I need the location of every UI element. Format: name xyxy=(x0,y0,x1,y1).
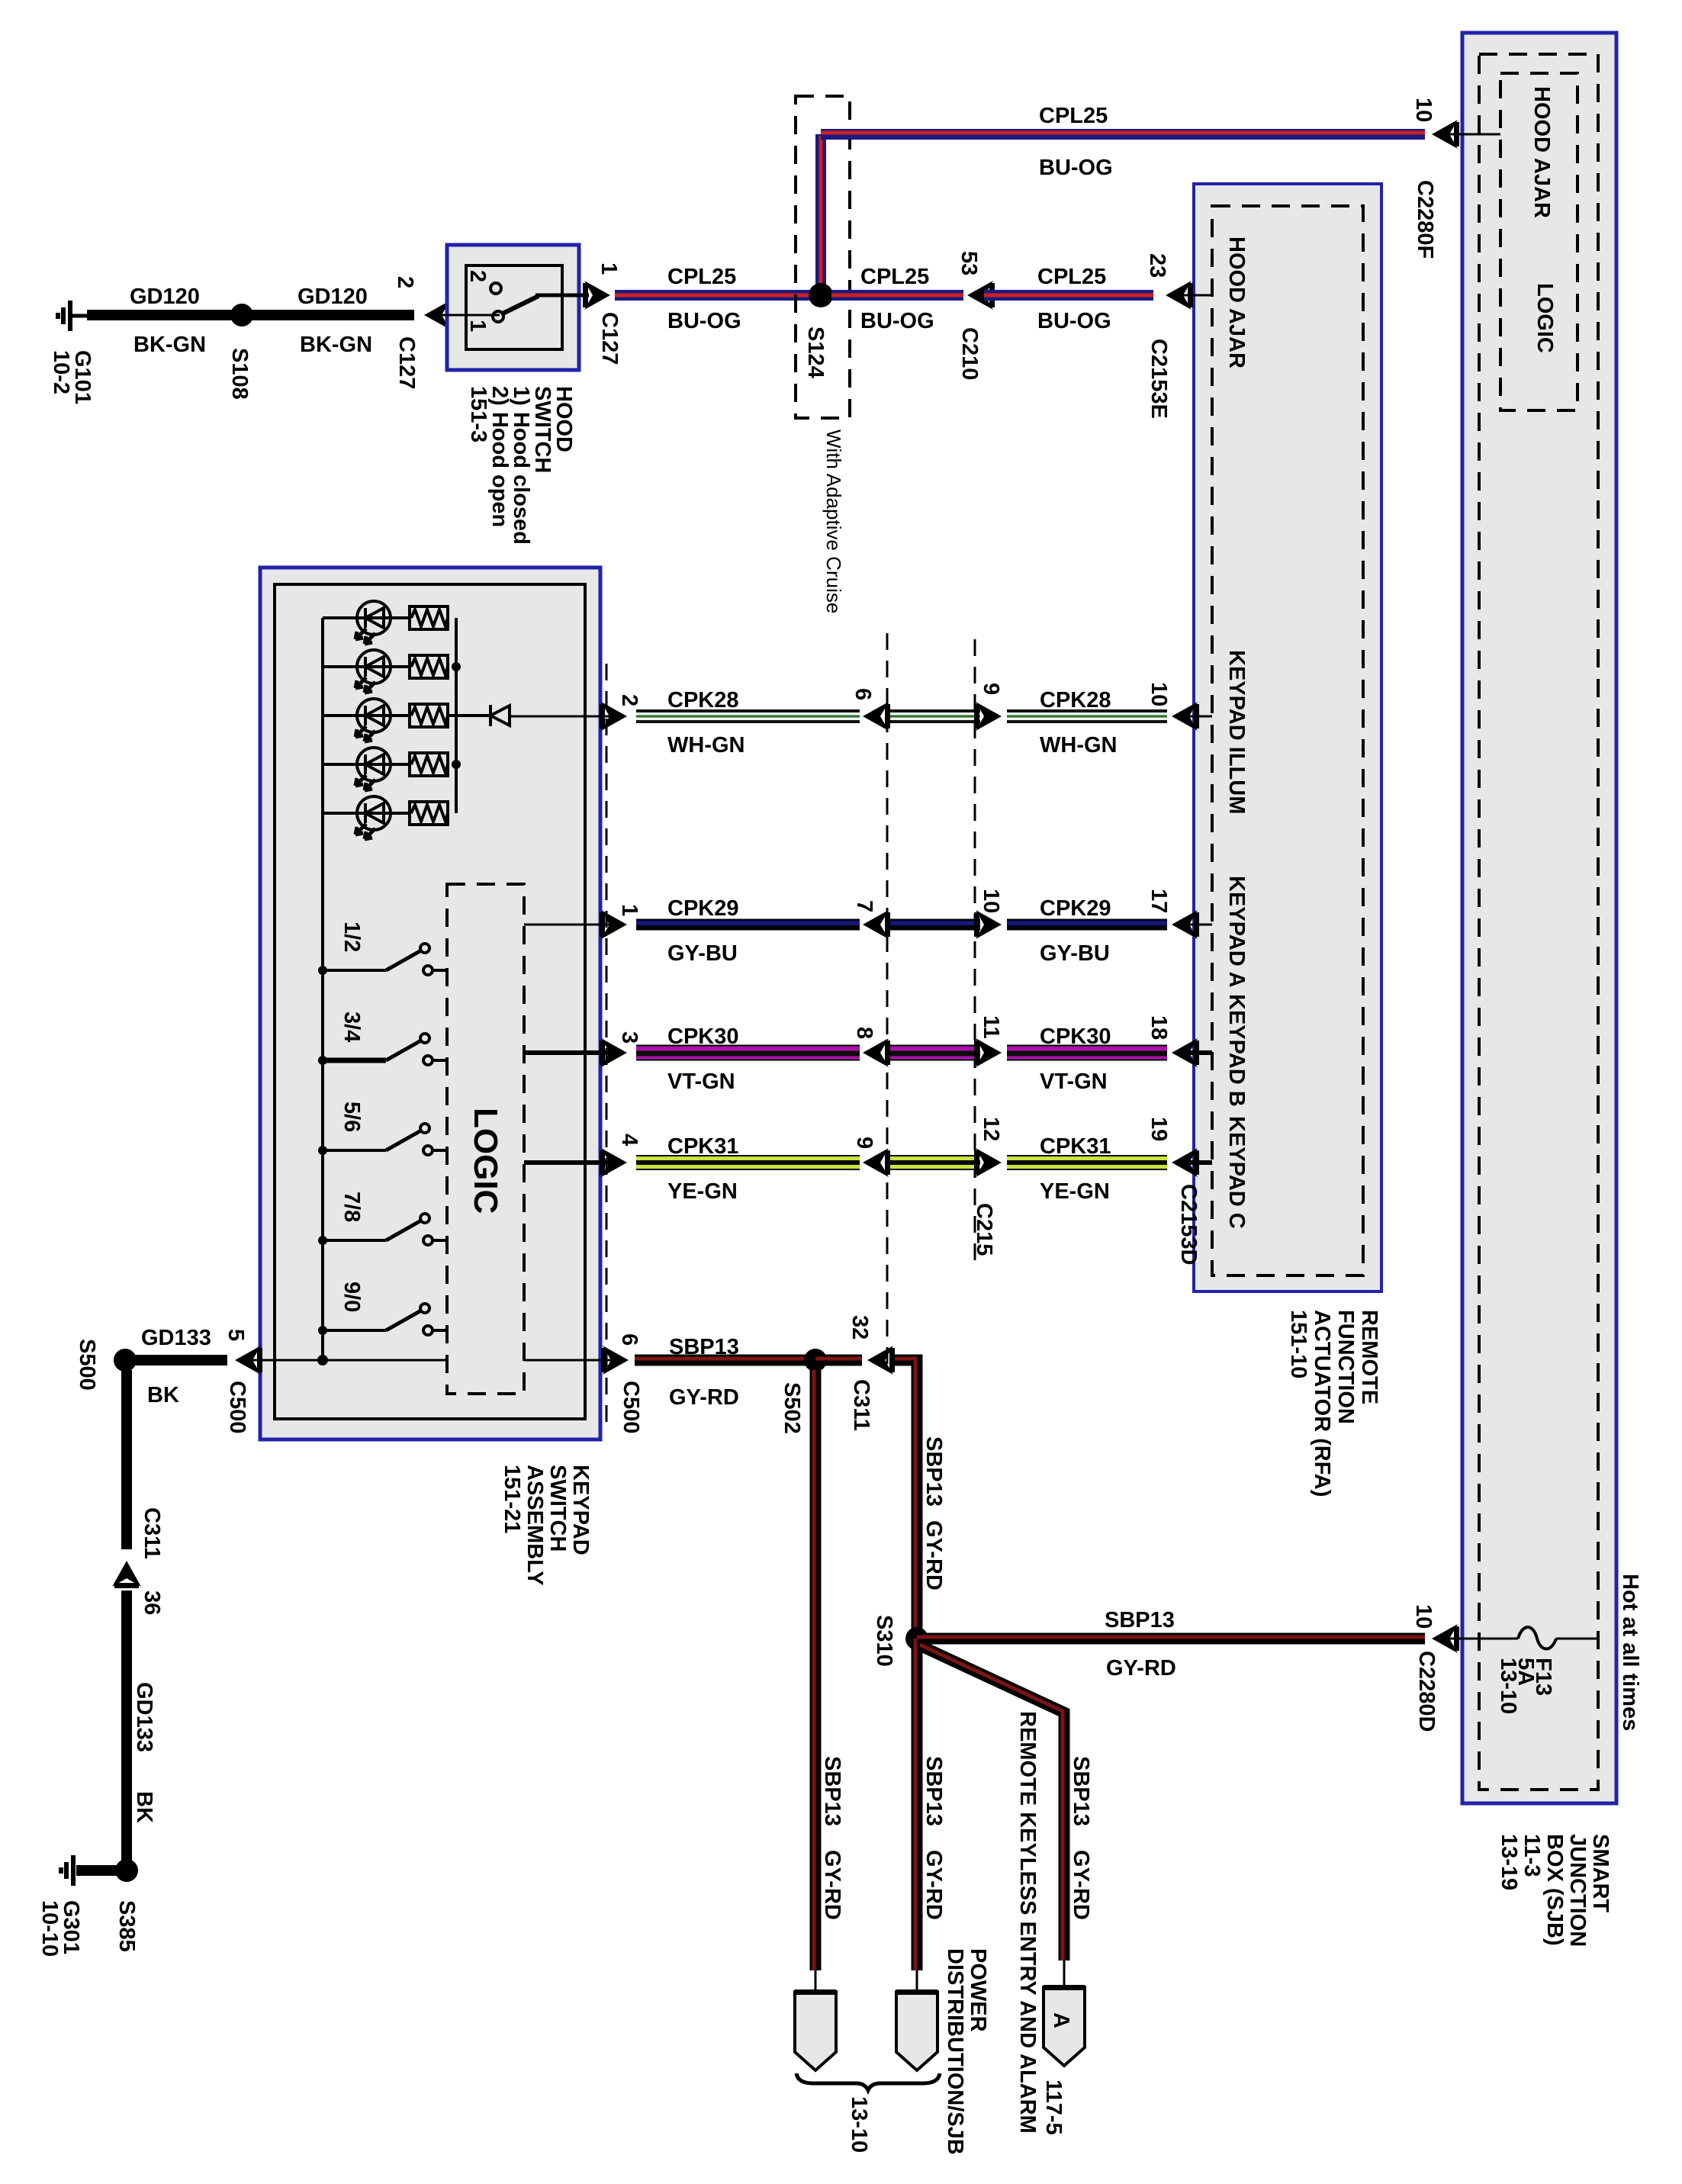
svg-text:C500: C500 xyxy=(619,1381,643,1433)
svg-text:WH-GN: WH-GN xyxy=(1040,733,1117,757)
label HOOD AJAR (SJB) xyxy=(1529,86,1554,218)
svg-text:REMOTE KEYLESS ENTRY AND ALARM: REMOTE KEYLESS ENTRY AND ALARM xyxy=(1015,1711,1040,2134)
pentagon lead 1 xyxy=(815,1970,817,1992)
svg-text:C127: C127 xyxy=(394,336,419,389)
C311 pin 8 female arrow xyxy=(863,1038,890,1067)
svg-text:C311: C311 xyxy=(140,1507,164,1559)
switch pivot contact pin 1 xyxy=(493,311,503,322)
pin line into RFA keypad B xyxy=(1181,1050,1212,1055)
C2153D pin 18 female arrow xyxy=(1172,1038,1199,1067)
pin 23 label xyxy=(1145,253,1169,278)
svg-text:C2153E: C2153E xyxy=(1147,339,1171,419)
svg-text:CPL25: CPL25 xyxy=(860,265,929,289)
label SBP13 vertical xyxy=(820,1756,844,1826)
label C500 left xyxy=(225,1381,249,1433)
LED 4 xyxy=(355,748,391,790)
svg-text:BU-OG: BU-OG xyxy=(1039,156,1113,180)
svg-text:GY-RD: GY-RD xyxy=(921,1850,946,1920)
svg-text:YE-GN: YE-GN xyxy=(667,1179,738,1204)
connector C500 dashed line xyxy=(606,664,608,1433)
pin line into RFA keypad A xyxy=(1181,924,1212,926)
svg-text:32: 32 xyxy=(847,1315,872,1340)
svg-text:23: 23 xyxy=(1145,253,1169,278)
svg-text:C215: C215 xyxy=(972,1203,996,1256)
svg-text:9/0: 9/0 xyxy=(339,1282,364,1312)
resistor 2 xyxy=(410,655,448,678)
svg-text:ASSEMBLY: ASSEMBLY xyxy=(523,1465,547,1585)
svg-text:CPK31: CPK31 xyxy=(1040,1134,1111,1159)
LED 5 xyxy=(355,796,391,839)
label KEYPAD A xyxy=(1224,876,1249,988)
label C210 xyxy=(957,327,982,380)
label 117-5 xyxy=(1041,2079,1066,2135)
svg-text:YE-GN: YE-GN xyxy=(1040,1179,1110,1204)
connector C311 pin 36 arrow up xyxy=(112,1561,141,1588)
svg-text:5: 5 xyxy=(224,1329,248,1341)
svg-text:KEYPAD B: KEYPAD B xyxy=(1224,994,1249,1107)
svg-text:1/2: 1/2 xyxy=(339,922,364,952)
splice S385 xyxy=(115,1859,138,1882)
svg-text:GY-BU: GY-BU xyxy=(667,941,738,966)
svg-text:CPK29: CPK29 xyxy=(1040,896,1111,921)
label SBP13 vertical xyxy=(921,1756,946,1826)
svg-text:17: 17 xyxy=(1147,889,1171,913)
svg-text:C210: C210 xyxy=(957,327,982,380)
svg-text:BOX (SJB): BOX (SJB) xyxy=(1542,1834,1567,1946)
pin 1 label xyxy=(617,904,642,916)
svg-text:CPK31: CPK31 xyxy=(667,1134,739,1159)
pin 36 label xyxy=(140,1591,164,1615)
svg-text:8: 8 xyxy=(852,1027,876,1039)
C2153D pin 19 female arrow xyxy=(1172,1148,1199,1177)
pin 10 label xyxy=(1411,98,1436,122)
svg-text:GY-RD: GY-RD xyxy=(1106,1656,1176,1681)
svg-text:7: 7 xyxy=(852,900,876,912)
label C311 xyxy=(140,1507,164,1559)
wire GD133 S500 to C500 xyxy=(125,1355,227,1365)
label KEYPAD ILLUM xyxy=(1224,650,1249,814)
connector C2280F female arrow xyxy=(1432,120,1459,149)
wire CPK31 segment 2 xyxy=(1007,1155,1167,1170)
pin 2 label xyxy=(617,694,642,706)
label SMART JUNCTION BOX (SJB) 11-3 13-19 xyxy=(1497,1834,1613,1947)
svg-text:151-3: 151-3 xyxy=(466,386,490,442)
label S385 xyxy=(114,1900,139,1952)
LOGIC dashed box xyxy=(447,884,524,1394)
pin 6 label xyxy=(617,1333,642,1346)
splice S108 xyxy=(230,304,253,326)
svg-text:13-10: 13-10 xyxy=(847,2096,871,2153)
wire CPK28 segment 1 white-green xyxy=(636,711,860,722)
connector C210 pin 53 female arrow xyxy=(967,281,995,310)
pin line into RFA keypad illum xyxy=(1181,716,1212,718)
label C215 xyxy=(972,1203,996,1256)
wire GD133 S500 down to C311 xyxy=(121,1370,132,1549)
SJB inner dashed border xyxy=(1479,54,1598,1790)
connector C127 pin 1 male arrow xyxy=(583,281,610,310)
keypad illum pin line xyxy=(510,716,615,718)
svg-text:C500: C500 xyxy=(225,1381,249,1433)
switch 7/8 xyxy=(318,1214,447,1245)
svg-text:GY-RD: GY-RD xyxy=(669,1385,739,1410)
wire CPK31 segment 1 yellow-green xyxy=(636,1155,860,1170)
LED 3 row wire xyxy=(323,714,410,717)
svg-text:151-21: 151-21 xyxy=(500,1465,524,1533)
keypad ground line pin 5 xyxy=(246,1359,447,1362)
wire CPK29 jumper xyxy=(890,923,980,925)
svg-text:ACTUATOR (RFA): ACTUATOR (RFA) xyxy=(1310,1310,1334,1497)
label S500 xyxy=(75,1339,99,1391)
switch output line xyxy=(535,294,589,298)
svg-text:KEYPAD A: KEYPAD A xyxy=(1224,876,1249,988)
C500 pin 1 male arrow xyxy=(600,910,627,939)
wire SBP13 S310 to SJB xyxy=(917,1637,1425,1639)
SJB hood-ajar logic dashed box xyxy=(1500,73,1577,410)
svg-text:FUNCTION: FUNCTION xyxy=(1333,1310,1358,1424)
label BK vertical xyxy=(132,1791,156,1823)
label C500 right xyxy=(619,1381,643,1433)
svg-text:BU-OG: BU-OG xyxy=(1037,309,1111,333)
wire CPK28 jumper xyxy=(890,711,980,722)
label KEYPAD SWITCH ASSEMBLY 151-21 xyxy=(500,1465,593,1585)
smart junction box SJB xyxy=(1462,33,1616,1803)
svg-text:POWER: POWER xyxy=(966,1948,990,2032)
wire CPK30 jumper xyxy=(890,1053,980,1053)
label GY-RD vertical xyxy=(921,1850,946,1920)
svg-text:12: 12 xyxy=(979,1117,1003,1141)
keypad inner box xyxy=(275,584,585,1419)
C215 pin 9 male arrow xyxy=(974,702,1002,731)
C311 pin 9 female arrow xyxy=(863,1148,890,1177)
svg-text:SBP13: SBP13 xyxy=(921,1436,946,1507)
svg-text:GD120: GD120 xyxy=(130,285,200,309)
label REMOTE KEYLESS ENTRY AND ALARM xyxy=(1015,1711,1040,2134)
junction dot bus to pin5 xyxy=(317,1355,328,1365)
wire GD120 segment 1 xyxy=(87,310,242,320)
svg-text:HOOD AJAR: HOOD AJAR xyxy=(1529,86,1554,218)
label SBP13 vertical branch xyxy=(1069,1756,1093,1826)
resistor 3 xyxy=(410,704,448,727)
LED 5 row wire xyxy=(323,812,410,815)
svg-text:7/8: 7/8 xyxy=(339,1192,364,1222)
diode xyxy=(490,705,510,726)
svg-text:REMOTE: REMOTE xyxy=(1357,1310,1381,1404)
ground G301 symbol xyxy=(61,1855,73,1886)
resistor 5 xyxy=(410,802,448,825)
svg-text:SBP13: SBP13 xyxy=(820,1756,844,1826)
wire to ground G301 xyxy=(76,1865,127,1876)
connector A xyxy=(1044,1985,1085,2066)
svg-text:SMART: SMART xyxy=(1588,1834,1613,1912)
diode feed wire xyxy=(448,714,490,717)
svg-text:BK-GN: BK-GN xyxy=(300,333,372,357)
C311 pin 32 female arrow xyxy=(867,1346,895,1375)
label S310 xyxy=(872,1615,896,1667)
keypad switch assembly box xyxy=(260,568,600,1439)
svg-text:SBP13: SBP13 xyxy=(1069,1756,1093,1826)
wire CPL25 segment C210-C2153E xyxy=(984,290,1153,301)
wire CPK30 segment 2 xyxy=(1007,1053,1167,1053)
svg-text:WH-GN: WH-GN xyxy=(667,733,745,757)
svg-text:2: 2 xyxy=(465,270,490,282)
C500 pin 2 male arrow xyxy=(600,702,627,731)
svg-text:LOGIC: LOGIC xyxy=(467,1108,504,1214)
power distribution connector 2 xyxy=(896,1989,937,2070)
svg-text:BU-OG: BU-OG xyxy=(860,309,934,333)
logic box output line pin 6 xyxy=(524,1359,614,1362)
LED right bus wire xyxy=(455,618,458,813)
connector C311 dashed line xyxy=(886,633,889,1369)
LED 1 row wire xyxy=(323,616,410,619)
label KEYPAD B xyxy=(1224,994,1249,1107)
fuse F13 xyxy=(1518,1627,1556,1649)
svg-text:JUNCTION: JUNCTION xyxy=(1565,1834,1590,1947)
pin 10 label xyxy=(1147,682,1171,706)
connector C500 pin 5 female arrow xyxy=(235,1346,262,1375)
label G101 10-2 xyxy=(49,350,95,404)
svg-text:C127: C127 xyxy=(597,312,622,365)
svg-text:LOGIC: LOGIC xyxy=(1532,283,1557,353)
svg-text:2: 2 xyxy=(393,276,417,288)
label GY-RD vertical branch xyxy=(1069,1850,1093,1920)
LED 1 xyxy=(355,601,391,644)
svg-text:11-3: 11-3 xyxy=(1520,1834,1544,1877)
pin 3 label xyxy=(617,1031,642,1044)
C500 pin 6 male arrow xyxy=(601,1346,629,1375)
ground G101 symbol xyxy=(58,301,90,331)
svg-text:3/4: 3/4 xyxy=(339,1012,364,1042)
power distribution connector 1 xyxy=(795,1989,836,2070)
svg-text:C311: C311 xyxy=(849,1379,873,1431)
svg-text:C2280D: C2280D xyxy=(1414,1651,1439,1732)
pin 18 label xyxy=(1147,1015,1171,1040)
pin line to fuse xyxy=(1441,1638,1518,1640)
svg-text:3: 3 xyxy=(617,1031,642,1044)
svg-text:9: 9 xyxy=(852,1137,876,1149)
pin 32 label xyxy=(847,1315,872,1340)
resistor 1 xyxy=(410,606,448,629)
pentagon lead A xyxy=(1063,1960,1066,1987)
C500 pin 3 male arrow xyxy=(600,1038,627,1067)
svg-text:GD133: GD133 xyxy=(132,1682,156,1752)
pin 12 label xyxy=(979,1117,1003,1141)
resistor 4 xyxy=(410,753,448,776)
pin 6 label xyxy=(851,688,875,700)
S124 dashed box xyxy=(796,96,850,418)
svg-text:GY-RD: GY-RD xyxy=(820,1850,844,1920)
label 9/0 xyxy=(339,1282,364,1312)
svg-text:GD120: GD120 xyxy=(297,285,368,309)
wire CPL25 segment S124-C210 xyxy=(831,290,963,301)
wire SBP13 S502 down branch xyxy=(814,1370,815,1970)
label C311 xyxy=(849,1379,873,1431)
svg-text:13-10: 13-10 xyxy=(1496,1658,1520,1714)
svg-text:151-10: 151-10 xyxy=(1286,1310,1311,1378)
label C2153D xyxy=(1176,1184,1201,1265)
svg-text:1: 1 xyxy=(465,320,490,332)
svg-text:CPK29: CPK29 xyxy=(667,896,739,921)
svg-text:Hot at all times: Hot at all times xyxy=(1618,1574,1642,1731)
svg-text:19: 19 xyxy=(1147,1117,1171,1141)
svg-text:CPK28: CPK28 xyxy=(667,688,739,712)
remote function actuator RFA xyxy=(1194,184,1381,1291)
label SBP13 vertical xyxy=(921,1436,946,1507)
svg-text:KEYPAD: KEYPAD xyxy=(568,1465,593,1555)
svg-text:11: 11 xyxy=(979,1015,1003,1039)
svg-text:KEYPAD C: KEYPAD C xyxy=(1224,1116,1249,1229)
label KEYPAD C xyxy=(1224,1116,1249,1229)
pin 10 label xyxy=(1411,1604,1436,1629)
svg-text:GY-RD: GY-RD xyxy=(1069,1850,1093,1920)
svg-text:BU-OG: BU-OG xyxy=(667,309,741,333)
wire CPK30 segment 1 violet-green xyxy=(636,1053,860,1053)
C311 pin 7 female arrow xyxy=(863,910,890,939)
label LOGIC (SJB) xyxy=(1532,283,1557,353)
hood switch inner box xyxy=(466,265,562,349)
C215 pin 11 male arrow xyxy=(974,1038,1002,1067)
svg-text:GY-BU: GY-BU xyxy=(1040,941,1110,966)
junction dots right bus xyxy=(452,662,461,671)
C2153D pin 10 female arrow xyxy=(1172,702,1199,731)
wire SBP13 S310 diagonal branch xyxy=(920,1645,1064,1960)
wire SBP13 C500-S502 gray-red xyxy=(635,1359,815,1360)
svg-text:CPL25: CPL25 xyxy=(1039,104,1108,128)
connector C215 dashed line xyxy=(974,639,976,1266)
switch 5/6 xyxy=(318,1124,447,1155)
label REMOTE FUNCTION ACTUATOR (RFA) 151-10 xyxy=(1286,1310,1381,1497)
C500 pin 4 male arrow xyxy=(600,1148,627,1177)
label S124 xyxy=(803,326,828,378)
label HOOD SWITCH 1) Hood closed 2) Hood open 151-3 xyxy=(466,386,576,545)
pin 2 label xyxy=(393,276,417,288)
pin line into hood switch xyxy=(433,314,500,317)
RFA inner dashed border xyxy=(1212,206,1363,1275)
label 7/8 xyxy=(339,1192,364,1222)
svg-text:With Adaptive Cruise: With Adaptive Cruise xyxy=(822,429,845,613)
pin line into RFA keypad C xyxy=(1181,1160,1212,1165)
switch lever xyxy=(503,296,539,314)
splice S124 xyxy=(809,283,833,307)
label GD133 vertical xyxy=(132,1682,156,1752)
pin 7 label xyxy=(852,900,876,912)
svg-text:S385: S385 xyxy=(114,1900,139,1952)
svg-text:10-10: 10-10 xyxy=(37,1900,62,1957)
logic box output line xyxy=(524,924,615,926)
svg-text:S108: S108 xyxy=(227,348,252,400)
switch 9/0 xyxy=(318,1304,447,1335)
switch 3/4 xyxy=(318,1034,447,1065)
pin 9 label xyxy=(852,1137,876,1149)
svg-text:GY-RD: GY-RD xyxy=(921,1520,946,1591)
splice S310 xyxy=(905,1627,928,1650)
label GY-RD vertical xyxy=(921,1520,946,1591)
label C2280F xyxy=(1413,180,1437,259)
svg-text:BK: BK xyxy=(132,1791,156,1823)
label GY-RD vertical xyxy=(820,1850,844,1920)
svg-text:10: 10 xyxy=(1411,1604,1436,1629)
hood switch box xyxy=(447,245,579,370)
svg-text:CPK30: CPK30 xyxy=(1040,1024,1111,1049)
label LOGIC keypad xyxy=(467,1108,504,1214)
svg-text:18: 18 xyxy=(1147,1015,1171,1040)
label F13 5A 13-10 xyxy=(1496,1658,1555,1714)
svg-text:CPL25: CPL25 xyxy=(1037,265,1106,289)
switch 1/2 xyxy=(318,944,447,975)
svg-text:BK: BK xyxy=(147,1383,179,1407)
label POWER DISTRIBUTION/SJB xyxy=(943,1948,990,2155)
svg-text:13-19: 13-19 xyxy=(1497,1834,1521,1890)
logic box output line xyxy=(524,1050,615,1055)
wire CPK29 segment 1 gray-blue xyxy=(636,923,860,925)
LED 3 xyxy=(355,699,391,741)
connector C127 pin 2 female arrow xyxy=(424,301,452,330)
pin 19 label xyxy=(1147,1117,1171,1141)
svg-text:VT-GN: VT-GN xyxy=(1040,1069,1108,1094)
connector C2280D female arrow xyxy=(1432,1624,1459,1653)
pin 1 label inside xyxy=(465,320,490,332)
fuse line to dashed box xyxy=(1556,1638,1597,1640)
wire GD120 segment 2 xyxy=(242,310,414,320)
label G301 10-10 xyxy=(37,1900,83,1957)
wire SBP13 C311 to riser corner xyxy=(895,1359,917,1639)
wire CPK31 jumper xyxy=(890,1155,980,1170)
svg-text:DISTRIBUTION/SJB: DISTRIBUTION/SJB xyxy=(943,1948,967,2155)
svg-text:VT-GN: VT-GN xyxy=(667,1069,735,1094)
splice S502 xyxy=(804,1349,827,1372)
C311 pin 6 female arrow xyxy=(863,702,890,731)
label C127 left xyxy=(394,336,419,389)
brace under connectors xyxy=(796,2073,940,2090)
label Hot at all times xyxy=(1618,1574,1642,1731)
label C2153E xyxy=(1147,339,1171,419)
svg-text:HOOD AJAR: HOOD AJAR xyxy=(1224,236,1249,368)
label S502 xyxy=(780,1382,804,1434)
wire CPL25 segment C127-S124 xyxy=(615,290,821,301)
pin 2 label inside xyxy=(465,270,490,282)
svg-text:4: 4 xyxy=(617,1134,642,1146)
label 13-10 xyxy=(847,2096,871,2153)
label 3/4 xyxy=(339,1012,364,1042)
svg-text:CPL25: CPL25 xyxy=(667,265,736,289)
label 1/2 xyxy=(339,922,364,952)
label S108 xyxy=(227,348,252,400)
LED left bus wire xyxy=(321,618,324,1360)
label A xyxy=(1049,2012,1073,2028)
svg-text:117-5: 117-5 xyxy=(1041,2079,1066,2135)
pin 9 label xyxy=(979,683,1003,695)
pin 11 label xyxy=(979,1015,1003,1039)
label C127 right xyxy=(597,312,622,365)
svg-text:6: 6 xyxy=(851,688,875,700)
svg-text:A: A xyxy=(1049,2012,1073,2028)
svg-text:S124: S124 xyxy=(803,326,828,378)
svg-text:6: 6 xyxy=(617,1333,642,1346)
wire CPL25 riser to SJB row xyxy=(815,134,826,295)
splice S500 xyxy=(114,1349,137,1372)
LED 2 xyxy=(355,650,391,693)
pin 10 label xyxy=(979,889,1003,913)
svg-text:SBP13: SBP13 xyxy=(669,1335,739,1359)
svg-text:9: 9 xyxy=(979,683,1003,695)
svg-text:C2153D: C2153D xyxy=(1176,1184,1201,1265)
pin 1 label xyxy=(597,262,621,275)
label 5/6 xyxy=(339,1102,364,1132)
pin 5 label xyxy=(224,1329,248,1341)
wire GD133 C311 to S385 xyxy=(121,1591,132,1870)
LED 2 row wire xyxy=(323,665,410,668)
wire SBP13 S310 down xyxy=(915,1639,917,1970)
wire CPL25 top run to SJB xyxy=(821,133,1425,134)
